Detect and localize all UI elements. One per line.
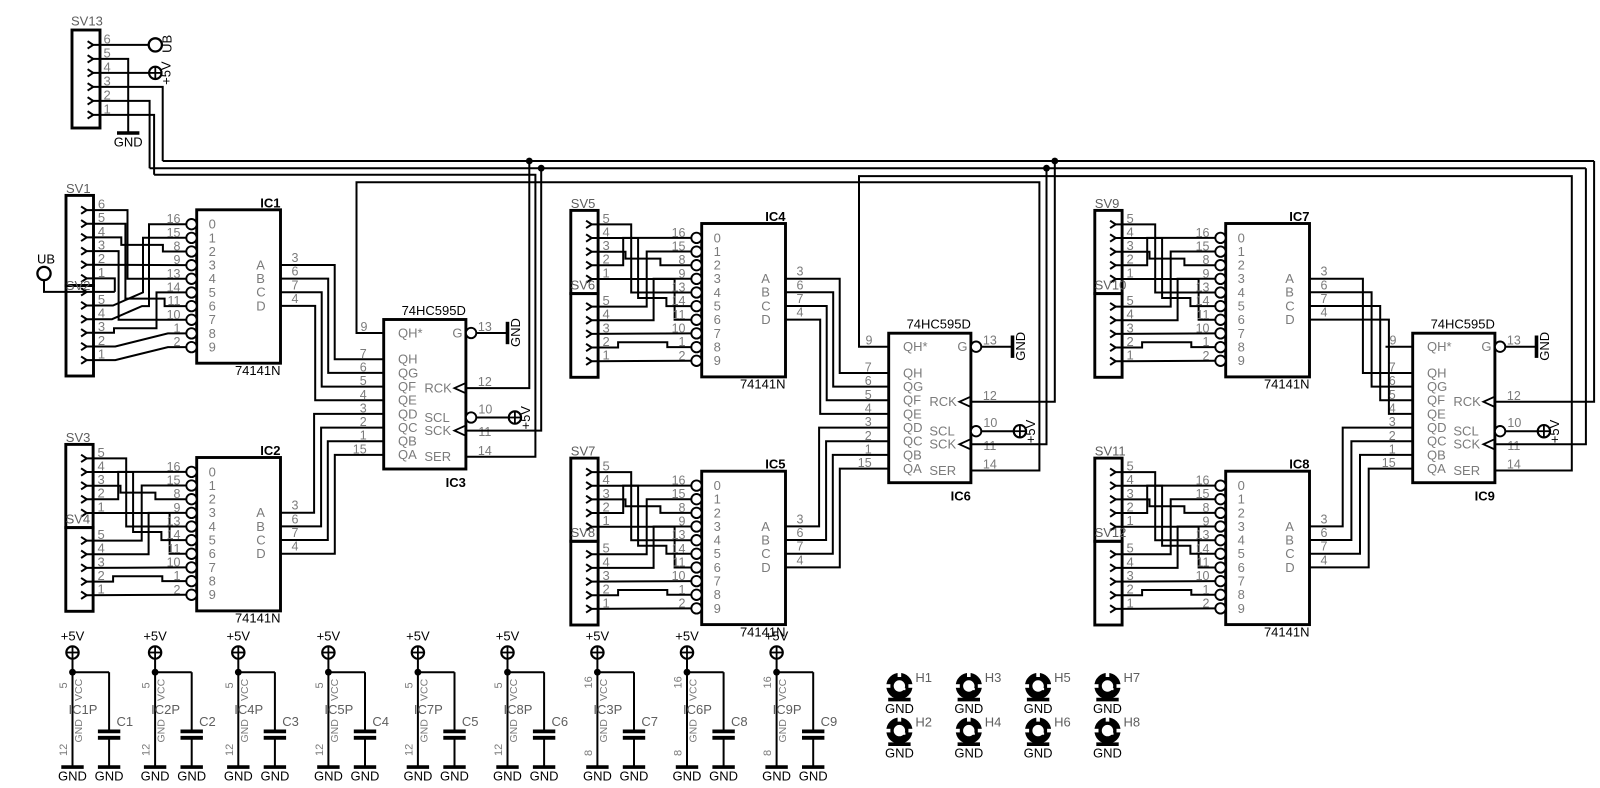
svg-text:11: 11 <box>1197 308 1210 322</box>
svg-text:10: 10 <box>672 321 686 335</box>
wire SV1 pin3 to IC digit7 <box>87 251 187 320</box>
wire IC1.B to IC3.QG <box>281 279 384 373</box>
capacitor C7 <box>623 672 658 767</box>
svg-text:14: 14 <box>672 542 686 556</box>
svg-text:15: 15 <box>672 240 686 254</box>
svg-text:C8: C8 <box>731 714 748 729</box>
wire net RCK from SV13 pin3 <box>93 87 163 161</box>
wire SV5 pin1 to IC digit6 <box>591 279 691 320</box>
svg-text:VCC: VCC <box>508 678 520 701</box>
ground GND (IC6P) <box>673 767 702 784</box>
svg-text:13: 13 <box>672 528 686 542</box>
wire net SER from SV13 pin1 <box>93 115 154 175</box>
svg-text:D: D <box>761 560 770 575</box>
wire IC8.A to IC9.QD <box>1310 428 1413 527</box>
wire SV11 pin4 to IC digit5 <box>1115 486 1215 554</box>
wire SV10 pin5 to IC digit1 <box>1115 252 1215 307</box>
junction SCK bus <box>538 165 545 172</box>
ground GND (IC4P) <box>224 767 253 784</box>
svg-text:SCK: SCK <box>1453 437 1480 452</box>
power block IC1P with capacitor C1 <box>58 628 109 767</box>
op-amp IC4 74141N driver <box>672 209 804 392</box>
junction SCK bus <box>1043 165 1050 172</box>
svg-text:GND: GND <box>885 746 914 761</box>
svg-text:GND: GND <box>1093 746 1122 761</box>
svg-text:GND: GND <box>141 769 170 784</box>
svg-text:9: 9 <box>209 587 216 602</box>
ground GND (C6) <box>530 767 559 784</box>
svg-text:74141N: 74141N <box>235 363 281 378</box>
junction RCK bus <box>1051 158 1058 165</box>
wire SV9 pin1 to IC digit6 <box>1115 279 1215 320</box>
wire IC6.SCK to SCK bus <box>971 168 1047 444</box>
svg-text:UB: UB <box>159 35 174 53</box>
svg-text:SV1: SV1 <box>66 181 91 196</box>
wire IC2.A to IC3.QD <box>281 414 384 513</box>
svg-text:QH*: QH* <box>1427 339 1452 354</box>
svg-text:7: 7 <box>797 540 804 554</box>
supply +5V (IC6) <box>1014 419 1038 443</box>
wire SV6 pin5 to IC digit1 <box>591 252 691 307</box>
wire IC8.C to IC9.QB <box>1310 455 1413 554</box>
svg-text:GND: GND <box>114 135 143 150</box>
svg-text:H8: H8 <box>1124 715 1141 730</box>
svg-text:C2: C2 <box>199 714 216 729</box>
svg-text:6: 6 <box>797 526 804 540</box>
power block IC2P with capacitor C2 <box>141 628 192 767</box>
svg-text:SV13: SV13 <box>71 14 103 29</box>
svg-text:3: 3 <box>292 499 299 513</box>
connector SV8 <box>571 525 610 625</box>
capacitor C5 <box>443 672 478 767</box>
svg-text:H1: H1 <box>915 670 932 685</box>
wire IC4.A to IC6.QH <box>786 279 889 373</box>
svg-text:D: D <box>256 546 265 561</box>
svg-text:7: 7 <box>292 278 299 292</box>
wire IC8.B to IC9.QC <box>1310 441 1413 540</box>
svg-text:GND: GND <box>329 719 341 743</box>
svg-text:4: 4 <box>292 292 299 306</box>
op-amp IC3 74HC595D shift register <box>353 303 493 490</box>
svg-text:QA: QA <box>1427 461 1446 476</box>
svg-text:GND: GND <box>95 769 124 784</box>
svg-text:IC6: IC6 <box>951 489 971 504</box>
svg-text:GND: GND <box>1024 746 1053 761</box>
svg-text:1: 1 <box>174 321 181 335</box>
wire SV11 pin5 to IC digit4 <box>1115 472 1215 540</box>
svg-text:74141N: 74141N <box>235 611 281 626</box>
svg-text:2: 2 <box>679 349 686 363</box>
svg-text:GND: GND <box>954 701 983 716</box>
svg-text:IC8: IC8 <box>1289 457 1309 472</box>
connector SV3 <box>66 430 105 528</box>
svg-text:12: 12 <box>493 744 505 756</box>
svg-text:13: 13 <box>983 334 997 348</box>
svg-text:74HC595D: 74HC595D <box>907 317 971 332</box>
ground GND (IC7P) <box>403 767 432 784</box>
svg-text:IC6P: IC6P <box>683 702 712 717</box>
svg-text:RCK: RCK <box>424 381 452 396</box>
svg-text:6: 6 <box>292 512 299 526</box>
wire SV10 pin4 to IC digit3 <box>1115 279 1215 320</box>
wire net SER bus to IC3 <box>154 175 535 457</box>
svg-text:GND: GND <box>508 318 523 347</box>
wire IC9.SCL to +5V <box>1505 430 1537 432</box>
svg-text:14: 14 <box>672 294 686 308</box>
svg-text:2: 2 <box>174 583 181 597</box>
wire IC1.D to IC3.QE <box>281 306 384 400</box>
wire SV2 pin1 to IC digit9 <box>87 347 187 360</box>
wire IC9.QH* stub <box>1386 346 1413 348</box>
svg-text:G: G <box>452 325 462 340</box>
ground GND (SV13) <box>114 133 143 150</box>
svg-text:9: 9 <box>1203 267 1210 281</box>
ground GND (C7) <box>620 767 649 784</box>
mounting hole H8 <box>1093 715 1140 761</box>
wire IC5.D to IC6.QA <box>786 469 889 568</box>
wire SV1 pin2 to IC digit3 <box>87 264 187 266</box>
svg-text:GND: GND <box>440 769 469 784</box>
svg-text:13: 13 <box>1196 281 1210 295</box>
svg-text:C6: C6 <box>552 714 569 729</box>
wire SV9 pin2 to IC digit0 <box>1115 238 1215 265</box>
mounting hole H5 <box>1024 670 1071 716</box>
ground GND (IC3) <box>508 318 524 347</box>
svg-text:5: 5 <box>403 682 415 688</box>
wire SV11 pin1 to IC digit6 <box>1115 527 1215 568</box>
wire SV8 pin3 to IC digit7 <box>591 580 691 583</box>
svg-text:2: 2 <box>174 335 181 349</box>
wire IC8.D to IC9.QA <box>1310 469 1413 568</box>
wire SV12 pin1 to IC digit9 <box>1115 607 1215 610</box>
svg-text:74141N: 74141N <box>740 377 786 392</box>
svg-text:13: 13 <box>167 267 181 281</box>
svg-text:3: 3 <box>797 512 804 526</box>
svg-text:6: 6 <box>1321 278 1328 292</box>
svg-text:11: 11 <box>168 542 181 556</box>
svg-text:IC2P: IC2P <box>151 702 180 717</box>
svg-text:16: 16 <box>672 226 686 240</box>
wire IC5.C to IC6.QB <box>786 455 889 554</box>
ground GND (C4) <box>351 767 380 784</box>
connector SV2 <box>66 278 105 376</box>
wire IC2.D to IC3.QA <box>281 455 384 554</box>
wire SV8 pin5 to IC digit1 <box>591 499 691 554</box>
connector SV11 <box>1095 444 1134 542</box>
wire IC7.D to IC9.QE <box>1310 320 1413 414</box>
svg-text:12: 12 <box>141 744 153 756</box>
svg-text:4: 4 <box>797 553 804 567</box>
mounting hole H7 <box>1093 670 1140 716</box>
svg-text:GND: GND <box>224 769 253 784</box>
svg-text:3: 3 <box>797 265 804 279</box>
ground GND (IC5P) <box>314 767 343 784</box>
svg-text:74141N: 74141N <box>1264 377 1310 392</box>
wire SV4 pin2 to IC digit8 <box>86 576 186 581</box>
ground GND (IC1P) <box>58 767 87 784</box>
svg-text:+5V: +5V <box>227 628 251 643</box>
svg-text:9: 9 <box>174 253 181 267</box>
svg-text:16: 16 <box>762 676 774 688</box>
svg-text:14: 14 <box>983 458 997 472</box>
svg-text:5: 5 <box>314 682 326 688</box>
connector SV1 <box>66 181 105 286</box>
svg-text:GND: GND <box>688 719 700 743</box>
svg-text:QH*: QH* <box>398 325 423 340</box>
svg-text:13: 13 <box>1196 528 1210 542</box>
svg-text:13: 13 <box>1507 334 1521 348</box>
svg-text:H4: H4 <box>985 715 1002 730</box>
svg-text:7: 7 <box>1321 540 1328 554</box>
svg-text:D: D <box>761 312 770 327</box>
svg-text:SER: SER <box>424 449 451 464</box>
power block IC4P with capacitor C3 <box>224 628 275 767</box>
svg-text:IC7P: IC7P <box>414 702 443 717</box>
svg-text:8: 8 <box>679 501 686 515</box>
svg-text:C4: C4 <box>372 714 389 729</box>
svg-text:IC1P: IC1P <box>69 702 98 717</box>
wire SV1 pin6 to IC digit4 <box>87 210 187 279</box>
wire SV4 pin5 to IC digit1 <box>86 486 186 541</box>
svg-text:12: 12 <box>314 744 326 756</box>
svg-text:+5V: +5V <box>317 628 341 643</box>
wire SV2 pin3 to IC digit5 <box>87 292 187 332</box>
wire IC6.G to GND <box>981 346 1012 348</box>
svg-text:D: D <box>1285 312 1294 327</box>
junction RCK bus <box>526 158 533 165</box>
capacitor C9 <box>802 672 837 767</box>
ground GND (IC8P) <box>493 767 522 784</box>
wire IC7.B to IC9.QG <box>1310 292 1413 386</box>
wire IC5.A to IC6.QD <box>786 428 889 527</box>
svg-text:SER: SER <box>1453 463 1480 478</box>
wire IC2.B to IC3.QC <box>281 428 384 527</box>
svg-text:IC3: IC3 <box>446 475 466 490</box>
wire IC9.RCK to RCK bus <box>1495 161 1594 402</box>
svg-text:GND: GND <box>1013 332 1028 361</box>
op-amp IC7 74141N driver <box>1196 209 1328 392</box>
svg-text:13: 13 <box>672 281 686 295</box>
wire SV5 pin3 to IC digit2 <box>591 252 691 266</box>
svg-text:SCK: SCK <box>424 423 451 438</box>
svg-text:IC9: IC9 <box>1475 489 1495 504</box>
capacitor C3 <box>264 672 299 767</box>
svg-text:IC1: IC1 <box>260 195 280 210</box>
wire IC4.C to IC6.QF <box>786 306 889 400</box>
svg-text:5: 5 <box>141 682 153 688</box>
wire SV2 pin2 to IC digit8 <box>87 333 187 346</box>
svg-text:10: 10 <box>1196 569 1210 583</box>
wire SV7 pin1 to IC digit6 <box>591 527 691 568</box>
svg-text:4: 4 <box>797 306 804 320</box>
svg-text:9: 9 <box>1390 334 1397 348</box>
capacitor C6 <box>533 672 568 767</box>
svg-text:6: 6 <box>292 265 299 279</box>
wire IC2.C to IC3.QB <box>281 441 384 540</box>
svg-text:+5V: +5V <box>1547 419 1562 443</box>
ground GND (C3) <box>260 767 289 784</box>
svg-text:QA: QA <box>398 447 417 462</box>
wire IC3.SCK to SCK bus <box>466 168 541 430</box>
ground GND (C9) <box>799 767 828 784</box>
svg-text:14: 14 <box>167 281 181 295</box>
op-amp IC2 74141N driver <box>167 443 299 626</box>
wire IC1.A to IC3.QH <box>281 265 384 359</box>
svg-text:12: 12 <box>224 744 236 756</box>
power block IC9P with capacitor C9 <box>762 628 813 767</box>
ground GND (IC3P) <box>583 767 612 784</box>
wire SV6 pin2 to IC digit8 <box>591 342 691 347</box>
svg-text:+5V: +5V <box>61 628 85 643</box>
svg-text:GND: GND <box>620 769 649 784</box>
svg-text:VCC: VCC <box>239 678 251 701</box>
svg-text:16: 16 <box>583 676 595 688</box>
svg-text:16: 16 <box>672 474 686 488</box>
svg-text:H3: H3 <box>985 670 1002 685</box>
svg-text:10: 10 <box>1196 321 1210 335</box>
svg-text:10: 10 <box>167 308 181 322</box>
svg-text:SV2: SV2 <box>66 278 91 293</box>
svg-text:1: 1 <box>1203 583 1210 597</box>
svg-text:GND: GND <box>156 719 168 743</box>
wire SV7 pin5 to IC digit4 <box>591 472 691 540</box>
wire net RCK bus line <box>163 160 1594 162</box>
wire SV3 pin2 to IC digit0 <box>86 472 186 499</box>
svg-text:15: 15 <box>672 487 686 501</box>
svg-text:14: 14 <box>1507 458 1521 472</box>
svg-text:11: 11 <box>1197 556 1210 570</box>
supply +5V (IC9) <box>1538 419 1562 443</box>
mounting hole H3 <box>954 670 1001 716</box>
wire IC3.SCL to +5V <box>476 417 508 419</box>
svg-text:+5V: +5V <box>158 61 173 85</box>
wire SV7 pin4 to IC digit5 <box>591 486 691 554</box>
svg-text:9: 9 <box>866 334 873 348</box>
svg-text:11: 11 <box>478 425 491 439</box>
svg-text:C7: C7 <box>641 714 658 729</box>
svg-text:IC4P: IC4P <box>234 702 263 717</box>
svg-text:4: 4 <box>1321 553 1328 567</box>
wire SV11 pin3 to IC digit2 <box>1115 499 1215 513</box>
connector SV7 <box>571 444 610 542</box>
svg-text:16: 16 <box>1196 474 1210 488</box>
wire SV3 pin5 to IC digit4 <box>86 458 186 526</box>
wire SV3 pin3 to IC digit2 <box>86 486 186 500</box>
svg-text:IC4: IC4 <box>765 209 786 224</box>
svg-text:3: 3 <box>1321 512 1328 526</box>
svg-text:+5V: +5V <box>406 628 430 643</box>
svg-text:GND: GND <box>583 769 612 784</box>
svg-text:+5V: +5V <box>143 628 167 643</box>
svg-text:VCC: VCC <box>156 678 168 701</box>
wire SV10 pin2 to IC digit8 <box>1115 342 1215 347</box>
wire SV11 pin2 to IC digit0 <box>1115 486 1215 513</box>
ground GND (C8) <box>709 767 738 784</box>
svg-text:11: 11 <box>168 294 181 308</box>
svg-text:VCC: VCC <box>688 678 700 701</box>
ground GND (C1) <box>95 767 124 784</box>
svg-text:12: 12 <box>1507 389 1521 403</box>
wire SV8 pin2 to IC digit8 <box>591 590 691 595</box>
wire SV5 pin5 to IC digit4 <box>591 224 691 292</box>
svg-text:C5: C5 <box>462 714 479 729</box>
wire SV3 pin4 to IC digit5 <box>86 472 186 540</box>
svg-text:15: 15 <box>1196 240 1210 254</box>
wire SV1 pin4 to IC digit2 <box>87 237 187 251</box>
svg-text:H2: H2 <box>915 715 932 730</box>
svg-text:UB: UB <box>37 252 55 267</box>
svg-text:11: 11 <box>983 439 996 453</box>
wire SV9 pin4 to IC digit5 <box>1115 238 1215 306</box>
svg-text:16: 16 <box>673 676 685 688</box>
ground GND (C5) <box>440 767 469 784</box>
svg-text:IC5: IC5 <box>765 457 785 472</box>
capacitor C1 <box>98 672 133 767</box>
wire UB to SV2 pin6 <box>44 280 115 292</box>
svg-text:VCC: VCC <box>777 678 789 701</box>
svg-text:GND: GND <box>762 769 791 784</box>
svg-text:15: 15 <box>1196 487 1210 501</box>
svg-text:15: 15 <box>167 226 181 240</box>
svg-text:14: 14 <box>1196 294 1210 308</box>
svg-text:GND: GND <box>239 719 251 743</box>
svg-text:+5V: +5V <box>496 628 520 643</box>
svg-text:D: D <box>256 298 265 313</box>
svg-text:1: 1 <box>174 569 181 583</box>
wire SV13 pin5 to GND <box>93 59 128 133</box>
wire SV6 pin1 to IC digit9 <box>591 360 691 362</box>
svg-text:2: 2 <box>679 596 686 610</box>
svg-text:IC3P: IC3P <box>593 702 622 717</box>
svg-text:8: 8 <box>679 253 686 267</box>
svg-text:10: 10 <box>1507 416 1521 430</box>
wire SV3 pin1 to IC digit6 <box>86 513 186 554</box>
svg-text:GND: GND <box>1093 701 1122 716</box>
svg-text:G: G <box>1481 339 1491 354</box>
svg-text:9: 9 <box>714 601 721 616</box>
svg-text:6: 6 <box>797 278 804 292</box>
svg-text:IC5P: IC5P <box>324 702 353 717</box>
wire SV12 pin2 to IC digit8 <box>1115 590 1215 595</box>
wire SV9 pin5 to IC digit4 <box>1115 224 1215 292</box>
wire SV4 pin4 to IC digit3 <box>86 513 186 554</box>
svg-text:GND: GND <box>777 719 789 743</box>
svg-text:11: 11 <box>673 308 686 322</box>
svg-text:IC7: IC7 <box>1289 209 1309 224</box>
wire SV4 pin1 to IC digit9 <box>86 594 186 596</box>
svg-text:SER: SER <box>929 463 956 478</box>
svg-text:SV11: SV11 <box>1095 444 1126 459</box>
svg-text:GND: GND <box>598 719 610 743</box>
svg-text:SCK: SCK <box>929 437 956 452</box>
supply UB (left) <box>37 252 55 281</box>
wire SV13 pin6 to UB <box>93 44 148 46</box>
svg-text:+5V: +5V <box>1023 419 1038 443</box>
svg-text:VCC: VCC <box>73 678 85 701</box>
svg-text:8: 8 <box>1203 253 1210 267</box>
svg-text:3: 3 <box>1321 265 1328 279</box>
op-amp IC6 74HC595D shift register <box>858 317 998 504</box>
svg-text:9: 9 <box>209 339 216 354</box>
svg-text:+5V: +5V <box>675 628 699 643</box>
svg-text:12: 12 <box>403 744 415 756</box>
svg-text:VCC: VCC <box>329 678 341 701</box>
connector SV5 <box>571 196 610 294</box>
svg-text:8: 8 <box>174 487 181 501</box>
ground GND (IC9P) <box>762 767 791 784</box>
svg-text:D: D <box>1285 560 1294 575</box>
svg-text:14: 14 <box>478 444 492 458</box>
